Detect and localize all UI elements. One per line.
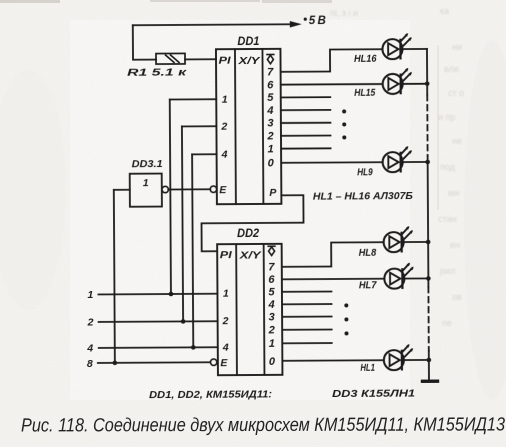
LED HL15	[383, 68, 412, 94]
input terminal 2 label	[87, 316, 94, 328]
ground	[422, 379, 437, 382]
label DD3 К155ЛН1	[332, 389, 415, 401]
label X/Y (DD2)	[238, 249, 262, 261]
svg-text:DD3.1: DD3.1	[132, 158, 163, 170]
ellipsis dots upper group	[342, 109, 346, 139]
label HL7	[359, 280, 377, 291]
svg-text:0: 0	[268, 157, 275, 169]
input terminal 4 label	[86, 342, 93, 354]
value label R1 5.1 к	[127, 66, 187, 78]
svg-text:стан: стан	[438, 214, 457, 224]
junction: bus/HL15	[425, 81, 430, 86]
pin numbers DD1 left column	[220, 94, 228, 161]
label HL8	[359, 248, 377, 259]
wire: DD1 out 2 stub	[281, 135, 330, 137]
junction: input 8 / DD3.1 riser	[113, 361, 118, 366]
wire: DD1 out 4 stub	[281, 109, 330, 111]
open-collector symbol (DD1)	[267, 54, 274, 63]
pin numbers DD2 left column	[221, 288, 229, 354]
wire: DD2 out 2 stub	[283, 329, 332, 331]
label DD3.1	[132, 158, 163, 170]
ellipsis dots lower group	[344, 303, 348, 335]
svg-text:под: под	[440, 162, 456, 172]
inverter DD3.1	[130, 174, 169, 207]
svg-text:DD1, DD2, КМ155ИД11:: DD1, DD2, КМ155ИД11:	[149, 389, 272, 401]
svg-text:7: 7	[267, 66, 274, 78]
svg-text:2: 2	[87, 316, 94, 328]
svg-text:2: 2	[268, 324, 275, 336]
wire: HL9 to bus	[403, 161, 428, 163]
wire: HL16 to bus	[402, 48, 426, 50]
svg-text:1: 1	[143, 177, 149, 189]
wire: cathode bus dashed upper	[426, 95, 428, 156]
LED HL9	[383, 146, 412, 172]
svg-text:и пр: и пр	[438, 112, 455, 122]
wire: input 1 line	[98, 293, 217, 296]
label DD1	[237, 34, 259, 48]
junction: input 1 / riser	[169, 292, 174, 297]
resistor R1	[156, 53, 185, 64]
label HL1	[360, 363, 375, 374]
svg-text:не: не	[452, 136, 462, 146]
svg-text:X/Y: X/Y	[237, 55, 261, 67]
svg-text:HL9: HL9	[357, 167, 373, 178]
svg-text:пі, з і и: пі, з і и	[330, 8, 358, 18]
svg-text:7: 7	[268, 261, 275, 273]
LED HL7	[384, 263, 413, 289]
junction: bus/HL7	[426, 276, 431, 281]
wire: input 4 line	[99, 346, 218, 349]
svg-text:DD3 К155ЛН1: DD3 К155ЛН1	[332, 389, 415, 401]
input terminal 1 label	[87, 289, 93, 301]
svg-text:5: 5	[267, 92, 274, 104]
LED HL16	[382, 33, 411, 59]
junction: bus/HL9	[425, 160, 430, 165]
input terminal 8 label	[87, 358, 93, 370]
wire: cathode bus solid middle	[427, 156, 430, 287]
wire: DD1 out 3 stub	[281, 122, 330, 124]
wire: HL15 to bus	[403, 83, 427, 85]
svg-text:E: E	[219, 184, 227, 196]
wire: DD3.1 output to DD1 E	[168, 188, 210, 190]
svg-text:X/Y: X/Y	[238, 249, 262, 261]
wire: DD1 input 2	[182, 125, 216, 127]
wire: DD1 input 4	[192, 153, 216, 155]
svg-text:ов: ов	[452, 292, 462, 302]
pin numbers DD2 right column	[267, 261, 276, 368]
svg-text:1: 1	[267, 143, 273, 155]
IC DD1 body	[216, 49, 281, 204]
svg-text:0: 0	[269, 356, 276, 368]
svg-text:3: 3	[268, 311, 274, 323]
wire: DD2 out 5 stub	[282, 291, 331, 293]
wire: DD2 out 6 to HL7	[282, 278, 384, 281]
wire: DD2 out 3 stub	[283, 316, 332, 318]
junction: bus/HL1	[427, 358, 432, 363]
IC DD2 body	[217, 244, 282, 375]
svg-text:пе: пе	[442, 318, 452, 328]
pin label PI (DD2)	[220, 249, 233, 261]
svg-text:6: 6	[268, 274, 275, 286]
label HL16	[354, 54, 377, 65]
svg-text:PI: PI	[220, 249, 233, 261]
bleed-through text on right margin	[330, 6, 464, 328]
svg-text:DD2: DD2	[237, 226, 259, 240]
open-collector symbol (DD2)	[268, 246, 275, 255]
svg-text:HL1: HL1	[360, 363, 375, 374]
junction: input 4 / riser	[191, 345, 196, 350]
wire: DD1 out 6 to HL15	[281, 83, 383, 86]
svg-text:1: 1	[87, 289, 93, 301]
label DD2	[237, 226, 259, 240]
wire: DD2 out 4 stub	[283, 303, 332, 305]
svg-text:1: 1	[223, 288, 229, 300]
svg-text:2: 2	[220, 121, 227, 133]
svg-text:P: P	[269, 187, 277, 199]
label HL9	[357, 167, 373, 178]
wire: DD1 input 1	[170, 98, 216, 100]
svg-text:HL8: HL8	[359, 248, 377, 259]
svg-text:6: 6	[267, 79, 274, 91]
svg-text:4: 4	[221, 149, 228, 161]
svg-text:E: E	[220, 357, 228, 369]
svg-text:ен: ен	[450, 240, 460, 250]
label HL15	[354, 88, 375, 99]
svg-text:HL15: HL15	[354, 88, 375, 99]
label DD1, DD2 КМ155ИД11:	[149, 389, 272, 401]
wire: DD2 out 7 to HL8	[282, 242, 384, 267]
svg-text:4: 4	[267, 299, 274, 311]
pin label PI (DD1)	[218, 55, 231, 67]
svg-text:8: 8	[87, 358, 93, 370]
svg-text:5: 5	[268, 286, 275, 298]
pin label E (DD2) with inversion bubble	[210, 357, 228, 369]
pin label E (DD1) with inversion bubble	[210, 184, 227, 196]
svg-text:R1 5.1 к: R1 5.1 к	[127, 66, 187, 78]
junction: input 2 / riser	[181, 319, 186, 324]
svg-text:2: 2	[266, 130, 273, 142]
svg-text:HL16: HL16	[354, 54, 377, 65]
wire: DD1 out 0 to HL9	[281, 161, 382, 164]
svg-text:Рис. 118. Соединение двух микр: Рис. 118. Соединение двух микросхем КМ15…	[21, 414, 505, 436]
node +5 В label	[304, 15, 326, 27]
svg-text:DD1: DD1	[237, 34, 259, 48]
wire: riser input 1	[170, 100, 171, 294]
wire: DD2 out 1 stub	[283, 342, 332, 344]
label HL1 - HL16 АЛ307Б	[313, 190, 414, 203]
wire: HL8 to bus	[404, 241, 428, 243]
svg-text:4: 4	[86, 342, 93, 354]
wire: DD1 out 1 stub	[281, 147, 330, 149]
svg-text:1: 1	[222, 94, 228, 106]
pin label P (DD1)	[269, 187, 277, 199]
wire: +5V rail left drop to R1	[133, 25, 156, 60]
wire: DD3.1 input stub	[114, 189, 130, 191]
wire: DD1 out 5 stub	[281, 96, 330, 98]
svg-text:1: 1	[269, 338, 275, 350]
label X/Y (DD1)	[237, 55, 261, 67]
wire: riser input 4	[192, 154, 193, 347]
wire: +5V rail horizontal	[133, 23, 295, 26]
junction: bus/HL8	[426, 240, 431, 245]
caption Рис. 118	[21, 414, 505, 436]
svg-text:3: 3	[267, 118, 273, 130]
pin numbers DD1 right column	[266, 66, 275, 169]
wire: cathode bus solid to ground	[428, 351, 430, 380]
wire: DD2 out 0 to HL1	[283, 359, 384, 362]
wire: cathode bus dashed lower	[427, 287, 429, 351]
svg-text:рил: рил	[440, 266, 455, 276]
wire: input 8 line to DD2 E	[98, 361, 211, 364]
LED HL8	[384, 226, 413, 252]
svg-text:4: 4	[266, 105, 273, 117]
wire: cathode bus solid upper	[426, 49, 428, 95]
svg-text:PI: PI	[218, 55, 231, 67]
svg-text:5 В: 5 В	[309, 15, 326, 27]
wire: input 2 line	[99, 320, 218, 323]
wire: riser input 2	[182, 126, 183, 321]
svg-text:2: 2	[222, 315, 229, 327]
svg-text:ми: ми	[448, 188, 459, 198]
wire: HL1 to bus	[404, 359, 429, 361]
wire: DD1 out 7 to HL16	[280, 49, 382, 72]
wire: R1 to DD1 PI pin	[185, 58, 216, 60]
svg-text:ст о: ст о	[448, 88, 464, 98]
svg-text:вле: вле	[444, 64, 459, 74]
svg-text:ни: ни	[452, 42, 462, 52]
wire: riser input 8 to DD3.1	[114, 190, 115, 363]
svg-text:ка: ка	[440, 6, 449, 16]
arrow to +5V	[290, 21, 302, 27]
svg-text:4: 4	[222, 342, 229, 354]
svg-text:HL1 – HL16 АЛ307Б: HL1 – HL16 АЛ307Б	[313, 190, 414, 203]
wire: HL7 to bus	[404, 277, 428, 279]
LED HL1	[384, 344, 413, 370]
svg-text:HL7: HL7	[359, 280, 377, 291]
wire: DD1 P to DD2 PI	[201, 195, 303, 251]
